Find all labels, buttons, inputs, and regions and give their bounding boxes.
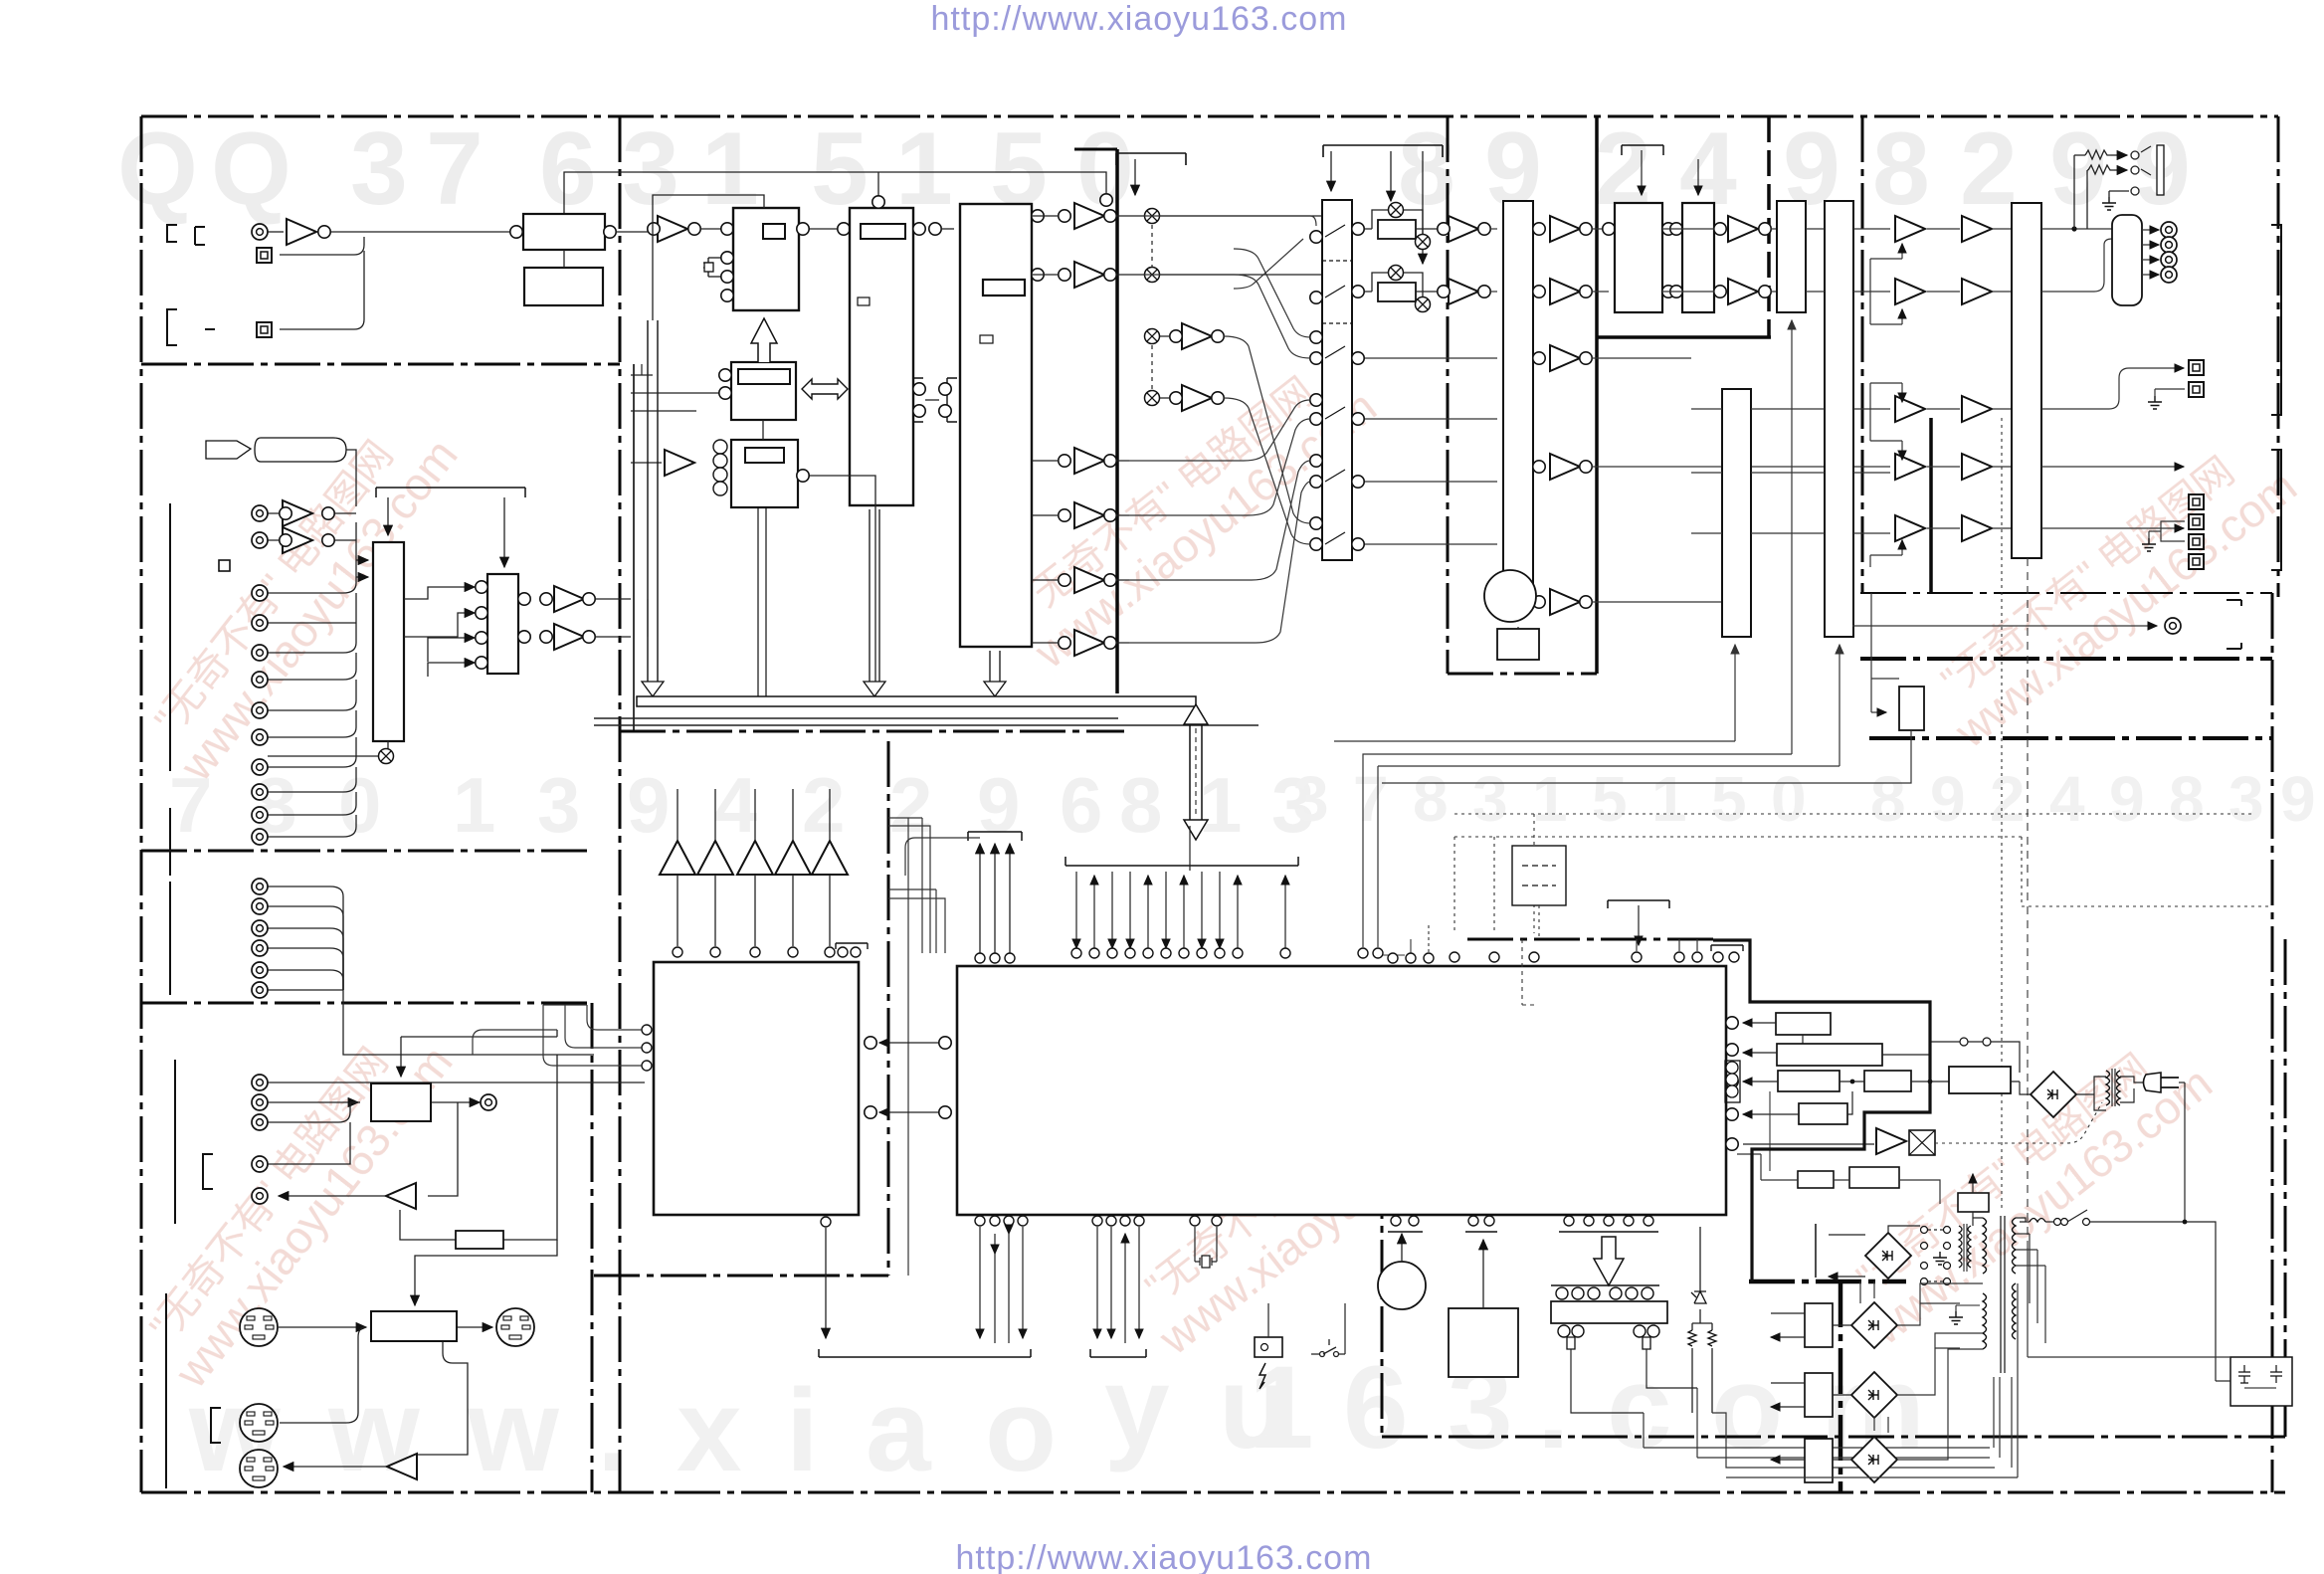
bracket cluster2 bottom	[1090, 1349, 1146, 1357]
connector out4	[2161, 267, 2177, 283]
wire conn 1128	[268, 1102, 350, 1122]
buffer col2 row2	[1962, 279, 1992, 304]
connector	[252, 784, 268, 800]
pin D left2	[719, 387, 731, 399]
border power inner heavy y1288	[1749, 1279, 1906, 1284]
s-video connector SV1	[240, 1308, 278, 1346]
strip lower pins	[1558, 1325, 1659, 1337]
wire bridge to transformer	[2076, 1077, 2106, 1110]
dotted arrows into IC2 top-right	[1383, 925, 1429, 955]
jack strip block	[1551, 1301, 1667, 1323]
buffer col1 row4	[1895, 454, 1925, 480]
pin	[851, 947, 861, 957]
buffer J out row1	[1728, 216, 1758, 242]
heavy solid inner borders	[634, 116, 1931, 731]
ground sq	[2148, 396, 2162, 409]
dashed box inner lines	[1522, 866, 1556, 885]
square out4	[2189, 514, 2204, 529]
pin	[1662, 286, 1674, 297]
buffer Q101	[287, 219, 316, 245]
circled-x on wire	[379, 749, 394, 764]
circled-x row2	[1145, 268, 1160, 283]
wire into ML1 row1	[356, 559, 368, 561]
buffer col2 row4	[1962, 454, 1992, 480]
bracket mark	[211, 1408, 221, 1443]
ground t2	[1949, 1311, 1963, 1324]
pin	[1759, 223, 1771, 235]
connector	[252, 702, 268, 718]
wire arrow into L bottom	[1378, 645, 1840, 947]
bracket line out	[2227, 600, 2241, 649]
group bracket	[169, 882, 171, 995]
connector	[252, 615, 268, 631]
amp triangle 3	[737, 841, 773, 875]
jack bar	[2157, 145, 2164, 195]
pin	[1580, 352, 1592, 364]
plug symbol	[206, 441, 251, 459]
bracket mark	[167, 309, 177, 345]
wire to cap box	[2028, 1356, 2230, 1358]
block standby reg	[1958, 1193, 1989, 1212]
amp wires up	[678, 789, 830, 946]
square connector J2	[257, 322, 272, 337]
wire arrow into K2 bottom	[1334, 645, 1735, 741]
pin	[1059, 210, 1070, 222]
buffer C out row4	[1074, 502, 1104, 528]
junction dot	[2183, 1220, 2188, 1225]
wire reg5 right	[1847, 1091, 1852, 1114]
bracket mark	[203, 1154, 213, 1189]
wire ML1 bottom feedback	[268, 741, 388, 756]
pin	[1450, 952, 1459, 962]
svg-text:1: 1	[453, 761, 495, 849]
block tuner sub	[524, 268, 603, 305]
svg-text:8: 8	[1872, 111, 1930, 227]
connector	[252, 1114, 268, 1130]
wire into left border	[473, 1030, 557, 1055]
wire low2 to bridge	[1833, 1394, 1851, 1396]
square out3	[2189, 494, 2204, 509]
pin	[688, 223, 700, 235]
s-video connector SV4	[240, 1450, 278, 1487]
pin	[1533, 352, 1545, 364]
svg-text:c: c	[1607, 1342, 1672, 1474]
small component box	[704, 263, 713, 272]
svg-text:3: 3	[1293, 763, 1329, 835]
connector	[252, 1075, 268, 1090]
bridge low3	[1851, 1437, 1897, 1482]
buffer U201a	[658, 216, 687, 242]
bracket strip	[1551, 1284, 1659, 1286]
wire col1-col2 row5	[1927, 527, 1960, 529]
wire bridge standby top	[1888, 1226, 1920, 1233]
wire B to C	[941, 228, 954, 230]
pin	[838, 223, 850, 235]
connector out2	[2161, 237, 2177, 253]
svg-text:9: 9	[2280, 763, 2316, 835]
block filter J	[1682, 203, 1714, 312]
wire C row5 out	[1032, 579, 1129, 581]
wire reg3-reg4	[1840, 1081, 1864, 1082]
square connector J1	[257, 248, 272, 263]
wire hollow arrow down to IC2	[1189, 826, 1191, 871]
switch block G	[1322, 200, 1352, 560]
wire G out rows to H	[1358, 358, 1497, 544]
border right band y596	[1860, 592, 2272, 594]
svg-text:9: 9	[627, 761, 670, 849]
wire IC1 left fan	[543, 1005, 642, 1066]
bridge low2	[1851, 1372, 1897, 1418]
pin	[1310, 476, 1322, 488]
AC plug	[2144, 1073, 2180, 1092]
pin	[939, 1106, 951, 1118]
pin	[1310, 292, 1322, 303]
pin	[1438, 223, 1450, 235]
border power bottom y1444	[1382, 1436, 2285, 1439]
contact circle	[2131, 187, 2139, 195]
wire P out down to buffer	[414, 1340, 468, 1455]
wire loop over R201	[1365, 210, 1438, 235]
block E	[731, 440, 798, 507]
wire col2 to M rows	[1992, 229, 2012, 528]
wire hp out1	[2142, 229, 2159, 231]
IC2 bottom pins cluster2	[1092, 1216, 1144, 1226]
wire hp out4	[2142, 274, 2159, 276]
pin	[583, 593, 595, 605]
value label box	[983, 280, 1025, 295]
wire reg4 right	[1911, 1081, 1949, 1082]
ghost watermark glyph row middle	[169, 761, 1314, 849]
wire buf1 to H	[1490, 228, 1497, 230]
pins IC1 top	[673, 947, 835, 957]
pin	[1310, 231, 1322, 243]
pin	[1438, 286, 1450, 297]
value label box	[763, 224, 785, 239]
pin	[1352, 476, 1364, 488]
block reg5	[1799, 1103, 1847, 1124]
wire A top to D loop	[653, 195, 764, 320]
lightning glyph	[1259, 1363, 1265, 1389]
pin	[1714, 223, 1726, 235]
buffer C out row1	[1074, 203, 1104, 229]
arrows low2	[1771, 1383, 1805, 1407]
jack strip circles top	[1556, 1287, 1653, 1299]
border heavy vertical x1941	[1929, 418, 1933, 593]
small square connector	[219, 560, 230, 571]
connector	[252, 645, 268, 661]
IC2 right pins	[1726, 1017, 1738, 1150]
wire H row2 to I	[1592, 291, 1609, 293]
svg-text:a: a	[866, 1365, 932, 1496]
wire arrow block to motor	[1517, 627, 1519, 629]
pin pair IC2 bottom 2	[1468, 1216, 1478, 1226]
tall rect K2	[1722, 389, 1751, 637]
wire pin5 to buffer	[1743, 1143, 1874, 1145]
wire D to E link	[762, 420, 764, 440]
block head amp A	[733, 208, 799, 310]
remote sensor box	[1255, 1337, 1282, 1357]
pin	[1358, 948, 1368, 958]
block reg2	[1777, 1044, 1882, 1066]
wire A out	[805, 228, 838, 230]
group bracket	[174, 1060, 176, 1224]
svg-text:8: 8	[1413, 763, 1449, 835]
pin	[1212, 1216, 1222, 1226]
pin	[939, 1037, 951, 1049]
buffer C out row6	[1074, 630, 1104, 656]
pin	[540, 631, 552, 643]
wire plug stub	[2179, 1082, 2185, 1083]
capstan motor circle	[1484, 570, 1536, 622]
wire P top feed	[414, 1271, 416, 1305]
square out2	[2189, 382, 2204, 397]
wire gray row	[1737, 1154, 1940, 1204]
arrows low3	[1771, 1459, 1805, 1461]
capacitor C201	[703, 258, 721, 277]
border power right x2297	[2284, 939, 2287, 1437]
wire ML2 out row2	[595, 636, 631, 638]
wire cx3 to buf	[1160, 336, 1170, 398]
svg-text:1: 1	[1249, 1342, 1314, 1474]
wire low1 to bridge	[1833, 1324, 1851, 1326]
pin	[1059, 509, 1070, 521]
wire switch-capbox link	[2216, 1380, 2230, 1382]
wire loop over R202	[1365, 273, 1438, 297]
group bracket2	[169, 808, 171, 876]
IC chip U401	[654, 962, 859, 1215]
wire bridge3 secondary	[1897, 1349, 1983, 1460]
IC2 bottom pins cluster1	[975, 1216, 1028, 1226]
wire to contact	[2111, 154, 2127, 156]
wire arrow into J top	[1697, 159, 1699, 195]
wire pot out	[1382, 730, 1911, 783]
wire N output	[431, 1101, 480, 1103]
IC2 bottom pins row right	[1564, 1216, 1653, 1226]
wire input to buffer	[268, 231, 284, 233]
strip stems	[1567, 1337, 1650, 1349]
pin	[1670, 223, 1682, 235]
pin pair IC2 bottom left	[1391, 1216, 1401, 1226]
block capstan C	[960, 204, 1032, 647]
wire ML1 to ML2 row1	[404, 587, 475, 599]
crystal X501	[1195, 1227, 1217, 1268]
connector	[252, 982, 268, 998]
ground hp	[2102, 197, 2116, 210]
pin	[1533, 223, 1545, 235]
svg-text:6: 6	[1343, 1342, 1409, 1474]
bracket trio	[968, 832, 1022, 841]
bridge rectifier main	[2031, 1072, 2076, 1117]
wire conn 796	[268, 767, 356, 792]
wire svideo1 to P	[279, 1326, 366, 1328]
hollow down arrow to jack strip	[1594, 1237, 1624, 1285]
svg-text:8: 8	[1119, 761, 1162, 849]
wire gnd t2	[1956, 1305, 1980, 1311]
pin	[797, 223, 809, 235]
pin	[1352, 352, 1364, 364]
svg-text:0: 0	[338, 761, 381, 849]
circled-x row3	[1145, 329, 1160, 344]
buffer H out row5	[1550, 589, 1580, 615]
wire IC2 top trio feed	[905, 838, 980, 876]
wire strip left down	[1571, 1349, 1644, 1413]
pin	[476, 607, 487, 619]
border right band y742	[1869, 736, 2272, 740]
pin	[721, 223, 733, 235]
circled-x R201 out	[1416, 235, 1431, 250]
buffer mid row3	[1182, 323, 1212, 349]
connector line out	[2165, 618, 2181, 634]
border middle vertical x893	[887, 741, 890, 1276]
hollow arrowhead B	[864, 682, 885, 696]
buffer power	[1876, 1128, 1906, 1154]
wire standby to transformer	[1972, 1212, 1974, 1226]
pin	[1310, 394, 1322, 406]
border right band y662	[1860, 657, 2272, 661]
pin	[1632, 952, 1642, 962]
ghost watermark glyph row top	[117, 111, 2191, 227]
pin	[1310, 455, 1322, 467]
wire I-J row2	[1662, 291, 1778, 293]
pin	[1352, 223, 1364, 235]
wire feed ML2 row4	[428, 663, 475, 677]
buffer H out row1	[1550, 216, 1580, 242]
connector	[252, 807, 268, 823]
wire conn 626	[268, 593, 356, 623]
transformer T502 main	[1983, 1216, 2016, 1373]
wire M out row4 to squares	[2041, 466, 2184, 468]
svg-text:2: 2	[889, 761, 932, 849]
trio arrows up group	[980, 844, 1010, 953]
svg-text:o: o	[1711, 1342, 1783, 1474]
pin	[642, 1061, 652, 1071]
wire long vertical x913	[907, 818, 909, 1276]
value label box	[738, 369, 790, 384]
wire to buffer	[631, 462, 662, 464]
wire conn 1108 arrow into N	[268, 1101, 358, 1103]
wire square1 right	[280, 237, 364, 255]
wire M out row1	[2041, 228, 2112, 230]
resistor boxes gray row	[1798, 1171, 1834, 1188]
hollow arrowhead at bus	[642, 682, 664, 696]
wire conn 1088	[268, 1082, 645, 1083]
pin	[1170, 392, 1182, 404]
pin	[1533, 461, 1545, 473]
wire arrow into ML1 top	[387, 497, 389, 535]
wire switch right long	[2099, 1222, 2216, 1381]
connector	[252, 532, 268, 548]
pin	[540, 593, 552, 605]
wire P feed from right	[415, 1240, 557, 1271]
buffer pair row1	[283, 500, 312, 526]
pin field arrows IC2 top	[1076, 872, 1285, 948]
pin	[1580, 286, 1592, 297]
svg-text:9: 9	[2109, 763, 2145, 835]
pin	[939, 405, 951, 417]
buffer H out row3	[1550, 345, 1580, 371]
bracket standby out	[1815, 1224, 1817, 1278]
connector	[252, 1156, 268, 1172]
wire N top feed	[400, 1037, 402, 1077]
border left column right edge	[619, 116, 622, 1492]
connector	[252, 879, 268, 894]
pin pair bracketed	[1711, 945, 1743, 951]
switch wipers in G	[1322, 225, 1352, 544]
wire N in left join	[350, 1101, 360, 1103]
feedback arrows col1	[1870, 244, 1902, 567]
wire conn 933	[268, 928, 343, 990]
amp triangle 2	[697, 841, 733, 875]
pin	[1352, 286, 1364, 297]
buffer col2 row3	[1962, 396, 1992, 422]
line-out wire	[1852, 625, 2157, 627]
border power heavy step path	[1713, 940, 1930, 1281]
wire buf pair row1	[268, 512, 356, 514]
svg-text:.: .	[1537, 1342, 1570, 1474]
wire B top up	[877, 172, 879, 196]
svg-text:5: 5	[1592, 763, 1628, 835]
border heavy y339	[1597, 335, 1771, 339]
svg-text:2: 2	[1990, 763, 2026, 835]
pin	[1005, 953, 1015, 963]
block reg4	[1864, 1071, 1911, 1091]
pin	[1032, 269, 1044, 281]
wire hp row2	[2087, 170, 2088, 229]
bracket cluster bottom	[819, 1349, 1031, 1357]
pin	[1533, 286, 1545, 297]
long bracket over IC2 pins	[1065, 857, 1298, 866]
connector	[252, 729, 268, 745]
svg-text:8: 8	[1870, 763, 1906, 835]
s-video connector SV3	[240, 1404, 278, 1442]
svg-text:w: w	[327, 1365, 421, 1496]
buffer col2 row5	[1962, 515, 1992, 541]
wire feed ML2 row3	[428, 638, 475, 662]
buffer left A301	[386, 1183, 416, 1209]
connector	[252, 898, 268, 914]
wire row2 to right	[1160, 274, 1323, 276]
gray wire bundle power verticals	[1726, 1283, 2018, 1477]
pin	[797, 470, 809, 482]
circled-x R202 top	[1389, 266, 1404, 281]
border divider top-left section	[141, 363, 620, 366]
pin	[929, 223, 941, 235]
sensor circle	[1261, 1344, 1268, 1351]
dotted wire relay to switch	[1935, 1102, 2102, 1143]
connector	[252, 759, 268, 775]
pin	[1170, 330, 1182, 342]
bracket over ML1/ML2	[376, 488, 525, 497]
wire conn 596	[268, 522, 356, 593]
block regulator main	[1949, 1067, 2011, 1093]
resistor hp1	[2085, 150, 2111, 159]
bracket pin pair	[1465, 1231, 1497, 1233]
wire conn 656	[268, 623, 356, 653]
coil stack right of IC2	[1725, 1061, 1740, 1102]
wire reg1 to pin	[1743, 1022, 1776, 1024]
connector	[252, 1094, 268, 1110]
pin	[518, 631, 530, 643]
pink diagonal watermarks	[128, 345, 2305, 1398]
contact circle	[1960, 1038, 1968, 1046]
diode D501	[1691, 1227, 1706, 1323]
wire buffer input from resistor	[400, 1210, 456, 1240]
hollow arrowhead C	[984, 682, 1006, 696]
buffer J out row2	[1728, 279, 1758, 304]
pin	[1352, 538, 1364, 550]
buffer after R202	[1449, 279, 1478, 304]
wire bridge2 secondary	[1897, 1333, 1983, 1395]
